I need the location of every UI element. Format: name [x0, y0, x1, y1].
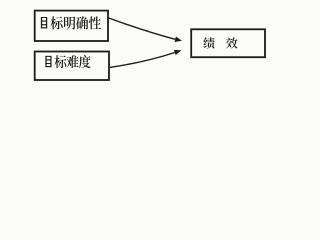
- arrow 2: difficulty -> performance: [110, 53, 175, 68]
- box: performance: [191, 29, 265, 57]
- arrow 1: clarity -> performance: [109, 18, 175, 39]
- label: goal clarity text: [41, 17, 47, 28]
- label: goal difficulty text: [45, 56, 51, 67]
- box: goal clarity: [35, 11, 108, 41]
- label: performance text: [203, 37, 214, 48]
- box: goal difficulty: [35, 52, 109, 81]
